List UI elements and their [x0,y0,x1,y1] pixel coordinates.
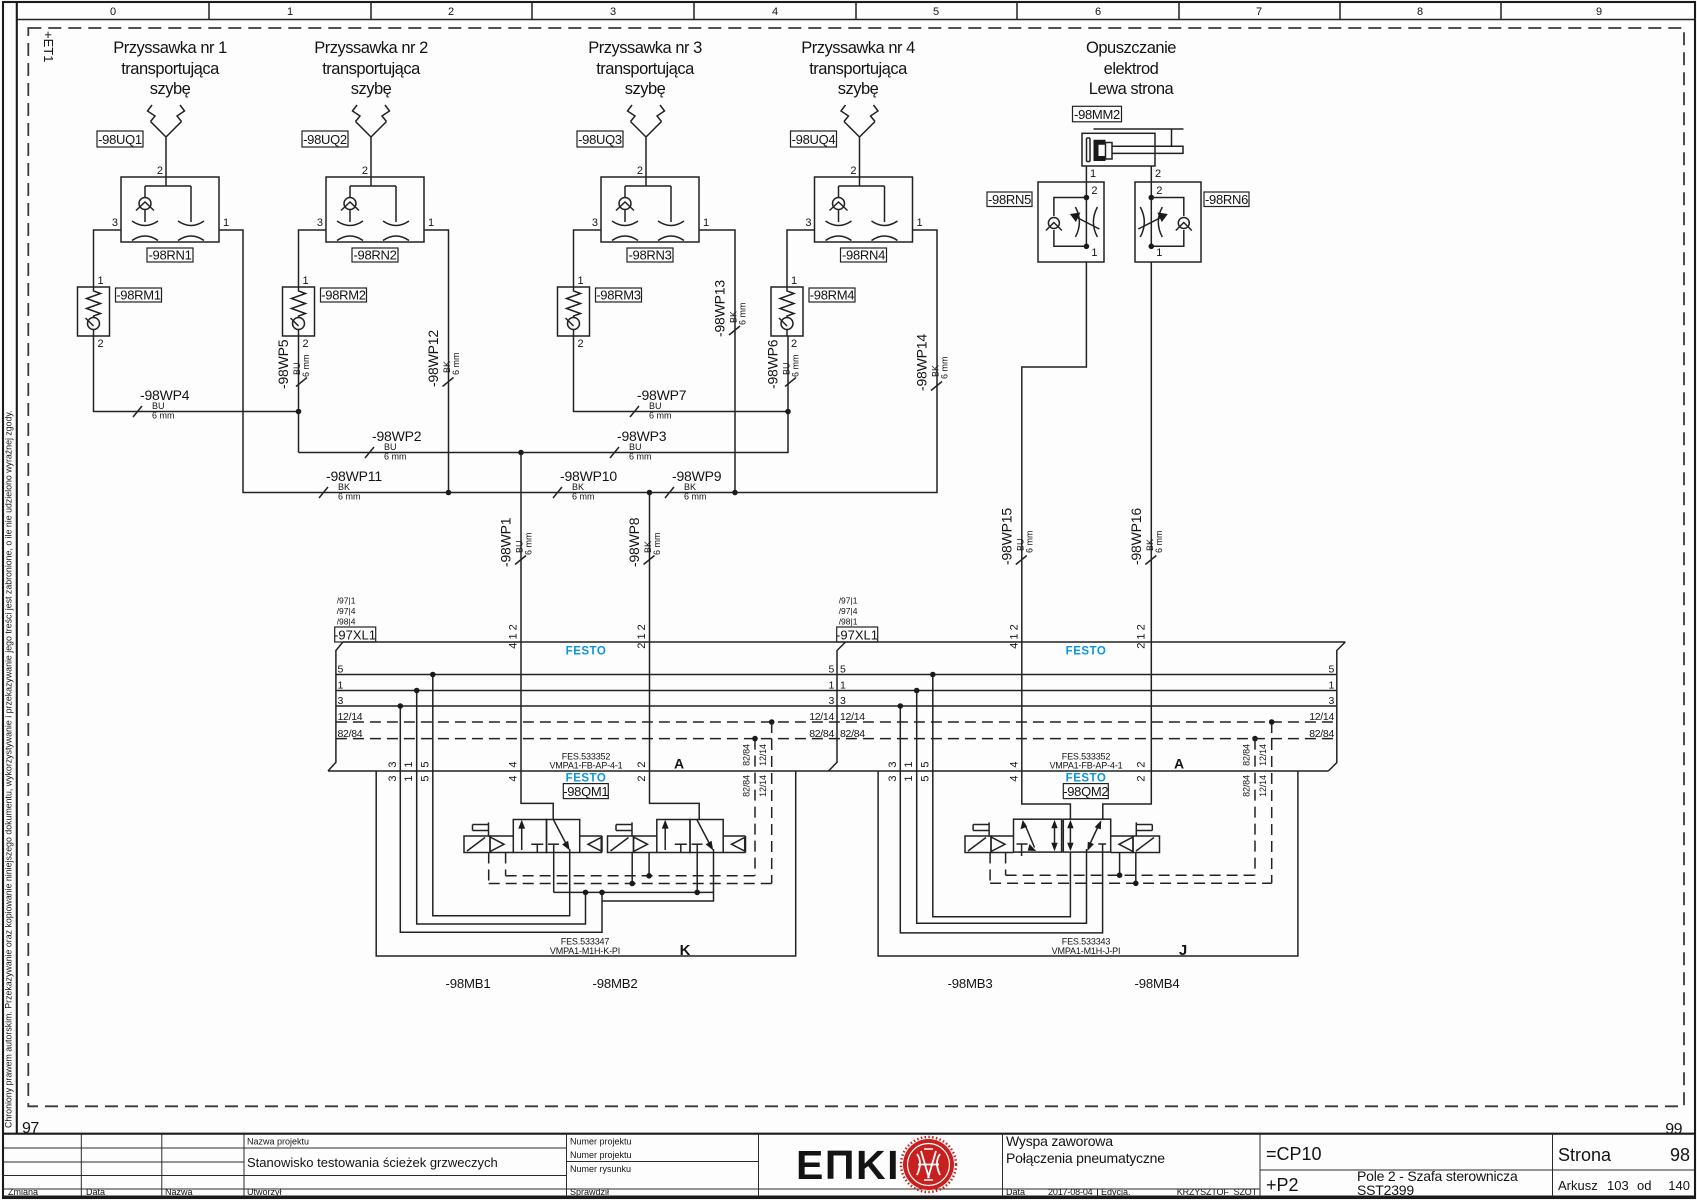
valve body of -98MB2 [634,820,746,853]
pilot stubs of -98MB3 [990,853,1006,884]
label -97XL1 (right segment) [836,627,878,643]
svg-text:6 mm: 6 mm [738,303,748,326]
pin 1 of -98RM1 [98,275,104,287]
svg-text:FESTO: FESTO [1066,773,1107,785]
svg-text:Wyspa zaworowa: Wyspa zaworowa [1006,1133,1113,1149]
wire -98WP8 (BK) down to valve island [650,493,700,820]
svg-text:12/14: 12/14 [809,711,834,723]
svg-text:6 mm: 6 mm [524,533,534,556]
svg-text:SST2399: SST2399 [1357,1182,1414,1198]
rail bus line 1 [336,690,1337,692]
svg-text:-98RN6: -98RN6 [1205,192,1248,207]
wire cylinder port2 to -98RN6 [1150,166,1152,198]
svg-text:6 mm: 6 mm [940,357,950,380]
pin 3 of -98RN1 [112,217,118,229]
svg-text:82/84: 82/84 [1242,775,1252,797]
pin 2 of -98MM2 [1155,168,1161,180]
svg-text:1: 1 [403,775,415,781]
wire port1 drop J manifold [917,691,1087,924]
svg-text:Zmiana: Zmiana [8,1187,38,1197]
junction pilot 82/84 J manifold [1252,736,1258,742]
svg-text:Przyssawka nr 3: Przyssawka nr 3 [588,39,702,57]
wire port 3 to -98RM3 [574,230,602,287]
vacuum generator -98RN4 [815,177,913,242]
svg-text:6 mm: 6 mm [791,355,801,378]
label -98RN3 [627,248,673,263]
label -98MB4 [1135,976,1180,991]
pilot triangle of -98MB3 [991,837,1005,852]
pin 2 of -98RN6 [1156,185,1162,197]
svg-text:szybę: szybę [838,80,879,98]
wire port 3 to -98RM2 [299,230,327,287]
svg-text:12/14: 12/14 [1258,744,1268,766]
svg-text:4 1 2: 4 1 2 [1008,624,1020,648]
port stub 12 pilot of -98MB1 [488,853,490,884]
svg-text:103: 103 [1607,1178,1629,1193]
suction cup -98UQ2 [353,105,390,177]
wire -98WP13 (BK) unit3 port1 down [699,230,735,493]
svg-text:A: A [1174,756,1184,772]
junction port3 J manifold [898,703,904,709]
pilot line 82/84 under J manifold [1006,874,1255,876]
svg-text:od: od [1637,1178,1651,1193]
svg-text:Sprawdził: Sprawdził [570,1187,609,1197]
svg-text:2 1 2: 2 1 2 [1136,624,1148,648]
junction port1 K manifold [414,688,420,694]
svg-text:4: 4 [1008,761,1020,767]
FESTO logo above -98QM2 [1066,773,1107,785]
svg-text:/97|4: /97|4 [337,606,356,616]
svg-text:/98|1: /98|1 [839,617,858,627]
svg-text:6 mm: 6 mm [338,492,361,502]
svg-text:-98RN2: -98RN2 [354,248,397,263]
svg-text:-98WP9: -98WP9 [672,468,722,484]
pilot stubs of -98MB4 [1120,853,1136,884]
spring check valve -98RM1 [78,287,110,336]
port stub 12 pilot of -98MB2 [631,853,633,884]
svg-text:-98MB4: -98MB4 [1135,976,1180,991]
svg-text:BK: BK [338,482,350,492]
pin 1 of -98RM4 [791,275,797,287]
solenoid coil of -98MB3 [965,836,991,853]
svg-text:elektrod: elektrod [1104,60,1159,78]
pin 2 of -98RN2 [362,165,368,177]
svg-text:KRZYSZTOF_SZOT: KRZYSZTOF_SZOT [1177,1187,1258,1197]
pin 1 of -98RN2 [428,217,434,229]
svg-text:82/84: 82/84 [338,728,363,740]
wire port 3 to -98RM1 [94,230,122,287]
pin 1 of -98MM2 [1090,168,1096,180]
svg-text:4: 4 [772,6,778,18]
label -98RM3 [596,288,642,303]
svg-text:1: 1 [428,217,434,229]
solenoid coil of -98MB2 [608,836,634,853]
svg-text:6 mm: 6 mm [384,452,407,462]
wire label -98WP16 [1128,508,1164,565]
junction pilot 12/14 K manifold [769,719,775,725]
svg-text:12/14: 12/14 [1258,775,1268,797]
suction cup -98UQ1 [148,105,185,177]
rail type text left [549,752,622,771]
svg-text:2: 2 [636,761,648,767]
svg-text:Lewa strona: Lewa strona [1089,80,1175,98]
rail top pin labels [508,624,1148,648]
svg-text:1: 1 [840,680,846,692]
wire port 3 to -98RM4 [787,230,815,287]
pin 1 of -98RN3 [703,217,709,229]
svg-text:1: 1 [1091,247,1097,259]
suction unit 1 heading [113,39,227,98]
svg-text:2: 2 [1155,168,1161,180]
title block [3,1133,1695,1198]
manual override of -98MB3 [973,822,989,836]
label -98RN5 [987,192,1032,207]
rail letter A left [674,756,684,772]
svg-text:Edycja.: Edycja. [1101,1187,1131,1197]
svg-text:1: 1 [791,275,797,287]
svg-text:BU: BU [152,401,165,411]
svg-text:VMPA1-FB-AP-4-1: VMPA1-FB-AP-4-1 [1049,761,1122,771]
svg-text:szybę: szybę [150,80,191,98]
port stub 14 pilot of -98MB2 [648,853,650,876]
valve body of -98MB4 [1063,819,1110,852]
+ET1 label [41,31,56,62]
svg-text:-98UQ1: -98UQ1 [98,132,142,147]
svg-text:5: 5 [419,775,431,781]
suction cup -98UQ3 [628,105,665,177]
svg-text:-98UQ4: -98UQ4 [792,132,836,147]
svg-text:transportująca: transportująca [596,60,695,78]
vacuum generator -98RN3 [601,177,699,242]
wire label -98WP15 [998,508,1034,565]
svg-text:=CP10: =CP10 [1266,1144,1322,1164]
svg-text:Opuszczanie: Opuszczanie [1086,39,1176,57]
label -98UQ2 [302,131,348,147]
pin 2 of -98RN1 [157,165,163,177]
pin 2 of -98RM4 [791,338,797,350]
svg-text:1: 1 [287,6,293,18]
svg-text:5: 5 [419,761,431,767]
junction WP8/WP10 [647,490,653,496]
svg-text:-98RM2: -98RM2 [321,288,366,303]
svg-text:2: 2 [850,165,856,177]
pin 2 of -98RM1 [98,338,104,350]
wire label -98WP10 [553,468,617,502]
wire -98WP10 (BK) horizontal [449,492,650,494]
pin 2 of -98RN5 [1091,185,1097,197]
svg-text:82/84: 82/84 [742,775,752,797]
pin 1 of -98RN4 [917,217,923,229]
svg-text:1: 1 [828,680,834,692]
rail bus line 5 [336,674,1337,676]
svg-text:2: 2 [303,338,309,350]
wire port3 drop J manifold [900,706,1102,933]
junction pilot 82/84 K manifold [752,736,758,742]
svg-text:-98UQ2: -98UQ2 [303,132,347,147]
svg-text:Połączenia pneumatyczne: Połączenia pneumatyczne [1006,1150,1165,1166]
svg-text:0: 0 [110,6,116,18]
heading Opuszczanie elektrod Lewa strona [1086,39,1176,98]
wire port1 drop K manifold [417,691,586,925]
svg-text:2: 2 [1091,185,1097,197]
suction unit 4 heading [801,39,915,98]
solenoid coil of -98MB4 [1111,836,1160,853]
svg-text:4 1 2: 4 1 2 [508,624,520,648]
svg-text:+P2: +P2 [1266,1175,1299,1195]
svg-text:3: 3 [112,217,118,229]
wire label -98WP1 [498,517,534,567]
svg-text:-97XL1: -97XL1 [334,628,376,643]
page link numbers 97 / 99 [22,1120,1683,1138]
wire label -98WP12 [425,330,461,387]
svg-text:3: 3 [840,695,846,707]
label -98RN1 [147,248,193,263]
solenoid coil of -98MB1 [464,836,490,853]
svg-text:1: 1 [1090,168,1096,180]
wire label -98WP9 [665,468,722,502]
svg-text:+ET1: +ET1 [41,31,56,62]
wire label -98WP6 [765,339,801,389]
svg-text:-98RM4: -98RM4 [810,288,855,303]
svg-text:/97|1: /97|1 [839,596,858,606]
FESTO logo on rail left [566,646,607,658]
label -97XL1 (left segment) [334,627,376,643]
svg-text:5: 5 [1328,664,1334,676]
pilot wire 12/14 drop K manifold [771,722,773,884]
svg-text:Nazwa projektu: Nazwa projektu [247,1137,309,1147]
svg-text:12/14: 12/14 [840,711,865,723]
manifold type text K [550,937,620,957]
pin 2 of -98RN4 [850,165,856,177]
pin 2 of -98RM2 [303,338,309,350]
svg-text:-98MM2: -98MM2 [1074,107,1120,122]
junction dots under K manifold [583,890,589,896]
pilot triangle of -98MB1 [490,837,504,852]
pilot line 12/14 under J manifold [990,882,1272,884]
svg-text:6 mm: 6 mm [301,355,311,378]
svg-text:1: 1 [1328,680,1334,692]
svg-text:/98|4: /98|4 [337,617,356,627]
manual override of -98MB1 [473,822,489,836]
svg-text:Data: Data [1006,1187,1025,1197]
svg-text:5: 5 [840,664,846,676]
svg-text:-98WP8: -98WP8 [626,517,642,567]
rail bus line 3 [336,705,1337,707]
pilot wire 12/14 drop J manifold [1271,722,1273,883]
left copyright strip text [4,410,14,1128]
svg-text:1: 1 [1156,247,1162,259]
svg-text:-98RN5: -98RN5 [988,192,1031,207]
wire label -98WP13 [712,280,748,337]
svg-text:2 1 2: 2 1 2 [636,624,648,648]
svg-text:-98WP2: -98WP2 [372,428,422,444]
svg-text:5: 5 [933,6,939,18]
svg-text:-98QM2: -98QM2 [1063,784,1108,799]
wire port3 drop K manifold [400,706,602,932]
svg-text:6 mm: 6 mm [152,411,175,421]
svg-text:/97|1: /97|1 [337,596,356,606]
junction WP6/WP7 [785,409,791,415]
label -98UQ4 [791,131,837,147]
svg-text:99: 99 [1665,1121,1682,1138]
pin 1 of -98RM3 [578,275,584,287]
svg-text:FES.533343: FES.533343 [1062,937,1111,947]
svg-text:12/14: 12/14 [758,744,768,766]
wire label -98WP14 [914,334,950,391]
rail letter A right [1174,756,1184,772]
svg-text:5: 5 [919,775,931,781]
manifold type text J [1052,937,1121,957]
suction unit 2 heading [314,39,428,98]
svg-text:6 mm: 6 mm [572,492,595,502]
wire -98WP1 (BU) down to valve island [521,453,553,820]
pilot line 12/14 under K manifold [489,883,772,885]
svg-text:-98WP13: -98WP13 [712,280,728,337]
one-way flow control valve -98RN6 [1135,182,1201,262]
label -98MB3 [948,976,993,991]
junction WP12/WP11 [446,490,452,496]
wire -98WP15 (BU) from -98RN5 down to valve island [1022,262,1087,819]
wire label -98WP3 [610,428,667,462]
svg-text:-98MB1: -98MB1 [446,976,491,991]
junction port3 K manifold [398,703,404,709]
svg-text:-98WP7: -98WP7 [637,387,687,403]
svg-text:82/84: 82/84 [840,728,865,740]
svg-text:2: 2 [98,338,104,350]
svg-text:1: 1 [917,217,923,229]
svg-text:-98UQ3: -98UQ3 [578,132,622,147]
svg-text:szybę: szybę [351,80,392,98]
label -98MB1 [446,976,491,991]
svg-text:FESTO: FESTO [1066,646,1107,658]
label -98RM2 [321,288,367,303]
svg-text:7: 7 [1256,6,1262,18]
svg-text:-98WP10: -98WP10 [560,468,617,484]
svg-text:1: 1 [98,275,104,287]
svg-text:3: 3 [887,775,899,781]
svg-text:6 mm: 6 mm [684,492,707,502]
svg-text:6 mm: 6 mm [629,452,652,462]
svg-text:szybę: szybę [625,80,666,98]
wire -98WP14 (BK) unit4 port1 down [735,230,937,493]
svg-text:3: 3 [338,695,344,707]
valve body of -98MB1 [490,820,602,853]
wire -98WP4 (BU) from -98RM1 to junction [94,336,299,412]
svg-text:-98RM1: -98RM1 [116,288,161,303]
port stub 14 pilot of -98MB1 [505,853,507,876]
one-way flow control valve -98RN5 [1038,182,1104,262]
wire label -98WP8 [626,517,662,567]
svg-text:-98RN4: -98RN4 [842,248,885,263]
wire port rail under K manifold [554,844,714,901]
svg-text:6: 6 [1095,6,1101,18]
manifold boundary box J [878,771,1298,956]
svg-text:1: 1 [338,680,344,692]
pilot junction dots under J manifold [1117,872,1123,878]
column header dividers and numbers 0-9 [110,2,1602,20]
svg-text:-98WP16: -98WP16 [1128,508,1144,565]
rail bus line 12/14 (pilot) [336,721,1337,723]
rail type text right [1049,752,1122,771]
svg-text:98: 98 [1670,1145,1690,1165]
suction unit 3 heading [588,39,702,98]
wire label -98WP7 [630,387,687,421]
spring check valve -98RM4 [771,287,803,336]
svg-text:2: 2 [637,165,643,177]
label -98UQ3 [577,131,623,147]
svg-text:transportująca: transportująca [322,60,421,78]
svg-text:4: 4 [1008,775,1020,781]
label -98QM2 [1063,784,1108,799]
wire -98WP2 (BU) horizontal [299,452,522,454]
rail bottom pin labels [387,744,1268,797]
svg-text:2: 2 [1156,185,1162,197]
manual override of -98MB4 [1136,822,1152,836]
svg-text:1: 1 [903,761,915,767]
vacuum generator -98RN1 [121,177,219,242]
bus line number labels [338,664,1335,740]
svg-text:J: J [1179,942,1187,959]
svg-text:BK: BK [572,482,584,492]
svg-text:1: 1 [903,775,915,781]
label -98QM1 [563,784,608,799]
wire -98WP3 (BU) horizontal [521,412,788,453]
svg-text:A: A [674,756,684,772]
wire -98WP12 (BK) from -98RN2 port1 down [424,230,449,493]
svg-text:2: 2 [1136,761,1148,767]
pin 1 of -98RN1 [223,217,229,229]
svg-text:1: 1 [223,217,229,229]
svg-text:-98WP4: -98WP4 [140,387,190,403]
connector strip -97XL1 references (right segment) [839,596,858,627]
svg-text:-98QM1: -98QM1 [563,784,608,799]
FESTO logo on rail right [1066,646,1107,658]
svg-text:4: 4 [508,761,520,767]
svg-text:2: 2 [448,6,454,18]
manual override of -98MB2 [616,822,632,836]
svg-text:Nazwa: Nazwa [165,1187,193,1197]
svg-text:2: 2 [362,165,368,177]
svg-text:3: 3 [805,217,811,229]
wire label -98WP4 [133,387,190,421]
svg-text:Numer rysunku: Numer rysunku [570,1164,631,1174]
wire port5 drop K manifold [433,675,570,916]
svg-text:5: 5 [828,664,834,676]
label -98RM4 [809,288,855,303]
FESTO logo above -98QM1 [566,773,607,785]
wire -98WP11 (BK) unit1 port1 down and right [219,230,449,493]
svg-text:BU: BU [384,442,397,452]
svg-text:3: 3 [828,695,834,707]
svg-text:Numer projektu: Numer projektu [570,1137,632,1147]
svg-text:BU: BU [649,401,662,411]
junction RM2/WP4 [296,409,302,415]
svg-text:6 mm: 6 mm [1024,531,1034,554]
svg-text:9: 9 [1596,6,1602,18]
vacuum generator -98RN2 [326,177,424,242]
svg-text:82/84: 82/84 [809,728,834,740]
pin 1 of -98RM2 [303,275,309,287]
svg-text:BK: BK [684,482,696,492]
cylinder -98MM2 [1082,129,1184,166]
svg-text:K: K [680,942,691,959]
svg-text:3: 3 [592,217,598,229]
svg-text:transportująca: transportująca [809,60,908,78]
manifold boundary box K [376,771,796,956]
label -98MM2 [1073,106,1122,122]
svg-text:-98WP14: -98WP14 [914,334,930,391]
svg-text:1: 1 [703,217,709,229]
